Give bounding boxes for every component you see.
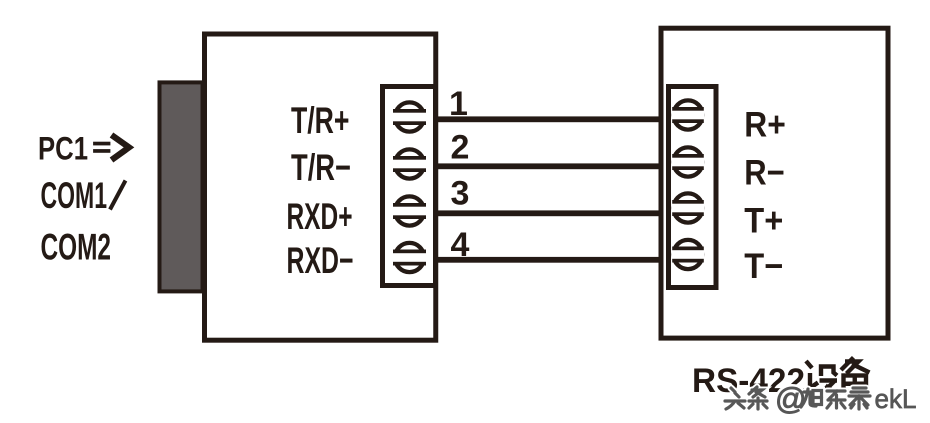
terminal block TB1 (left box) bbox=[383, 87, 436, 286]
svg-text:@: @ bbox=[775, 381, 806, 416]
equals sign of PC1=> bbox=[93, 142, 110, 146]
connector J1 (PC side, gray plug) bbox=[160, 82, 203, 291]
right device box (RS-422 device) bbox=[661, 28, 888, 338]
wire 2 bbox=[433, 163, 665, 169]
svg-text:3: 3 bbox=[451, 175, 470, 213]
screw terminal TB1-2 bbox=[392, 149, 427, 178]
arrow head of PC1=> bbox=[112, 135, 130, 160]
svg-text:R−: R− bbox=[744, 153, 785, 193]
left device box (converter) bbox=[205, 34, 436, 340]
svg-text:4: 4 bbox=[451, 226, 470, 264]
svg-text:T/R+: T/R+ bbox=[291, 100, 350, 141]
screw terminal TB1-4 bbox=[392, 243, 427, 272]
screw terminal TB2-1 bbox=[671, 100, 704, 129]
title hanzi SHE (设) bbox=[806, 361, 840, 396]
screw terminal TB1-3 bbox=[392, 196, 427, 225]
svg-text:1: 1 bbox=[449, 85, 468, 123]
screw terminal TB2-4 bbox=[671, 240, 704, 269]
svg-text:2: 2 bbox=[451, 129, 470, 167]
svg-text:PC1: PC1 bbox=[38, 131, 88, 167]
svg-text:R+: R+ bbox=[744, 105, 786, 145]
svg-text:RXD+: RXD+ bbox=[287, 196, 353, 237]
title hanzi BEI (备) bbox=[841, 358, 870, 393]
wire 4 bbox=[433, 257, 665, 263]
screw terminal TB2-2 bbox=[671, 147, 704, 176]
svg-text:ekL: ekL bbox=[875, 384, 917, 414]
svg-text:RXD−: RXD− bbox=[287, 240, 354, 281]
svg-text:COM2: COM2 bbox=[41, 226, 112, 267]
svg-text:T+: T+ bbox=[744, 201, 783, 241]
watermark gray strokes bbox=[725, 387, 870, 409]
screw terminal TB2-3 bbox=[671, 193, 704, 222]
wire 1 bbox=[433, 116, 665, 122]
svg-text:T−: T− bbox=[744, 246, 783, 286]
screw terminal TB1-1 bbox=[392, 102, 427, 131]
svg-text:COM1: COM1 bbox=[41, 175, 108, 216]
wire 3 bbox=[433, 210, 665, 216]
terminal block TB2 (right box) bbox=[669, 87, 717, 288]
label PC1 arrow text bbox=[38, 131, 110, 167]
svg-text:T/R−: T/R− bbox=[291, 147, 351, 188]
watermark white halo strokes bbox=[725, 387, 870, 409]
slash after COM1 bbox=[110, 181, 126, 210]
